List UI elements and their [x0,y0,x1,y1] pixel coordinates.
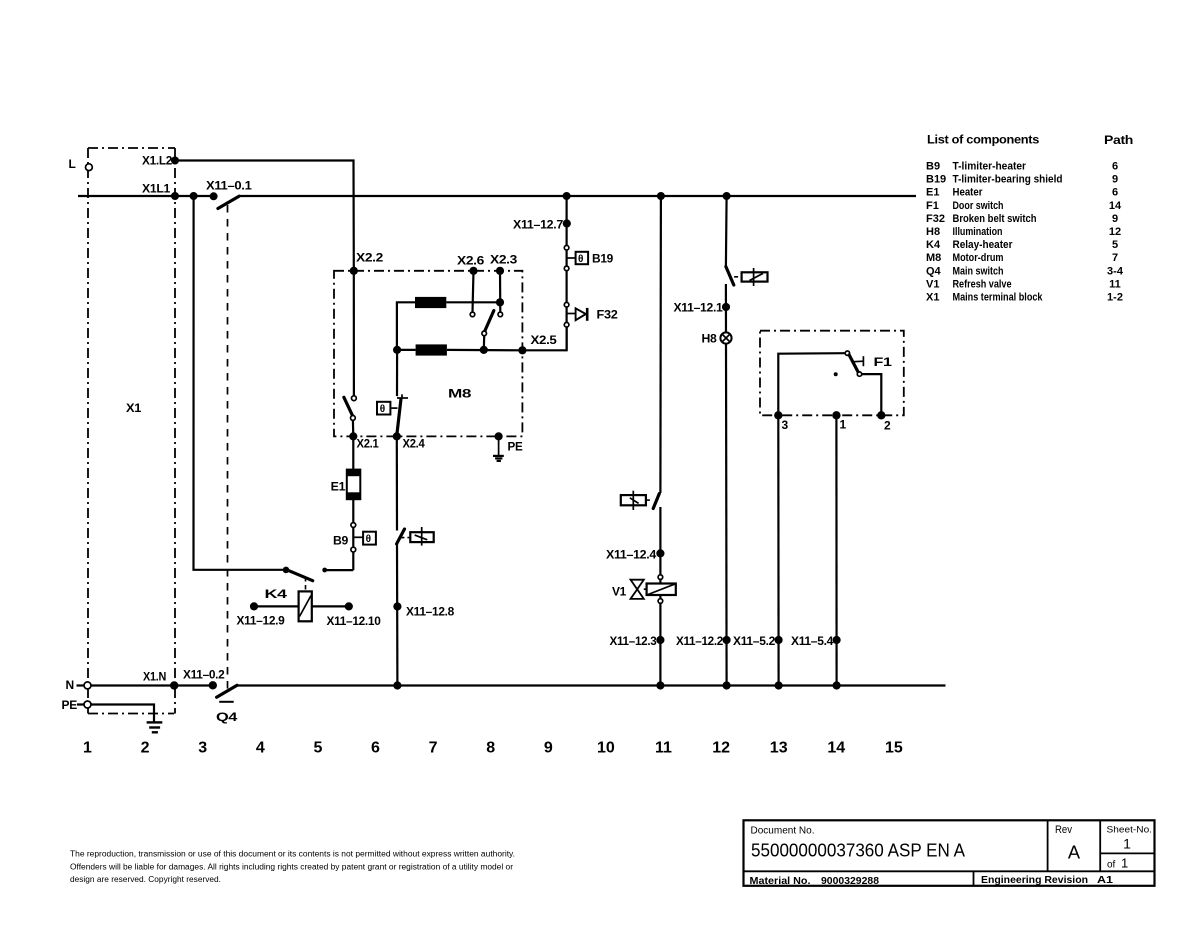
disclaimer text [70,850,515,885]
svg-text:X11–12.8: X11–12.8 [406,605,455,619]
wire L2 branch from X1.L2 to motor X2.2 [175,161,354,271]
switch Q4 pole X11-0.2 [209,681,238,697]
thermal sensor box (theta) of B9 [353,532,376,546]
program-operated contact in valve path [621,491,660,510]
mechanical link K4 contact to coil (dashed) [305,577,307,591]
wire contact to N bus [396,544,399,686]
svg-text:X11–12.1: X11–12.1 [674,301,724,315]
svg-text:Rev: Rev [1055,824,1072,836]
svg-text:B19: B19 [926,174,946,186]
node L (mains input terminal) [86,164,93,171]
wire PE from terminal to ground [77,705,154,722]
svg-text:6: 6 [371,740,380,757]
wire coil to X11-12.10 [312,605,349,607]
node X2.5 [518,346,526,354]
svg-text:Offenders will be liable for d: Offenders will be liable for damages. Al… [70,862,513,871]
svg-text:5: 5 [313,740,322,757]
node X2.6 [469,267,477,275]
mains terminal block X1 (dash-dot box) [88,148,175,714]
svg-text:Door switch: Door switch [953,200,1004,212]
svg-text:X1.L2: X1.L2 [142,154,173,168]
svg-text:X2.4: X2.4 [403,437,426,451]
svg-text:1: 1 [840,418,847,432]
svg-text:Q4: Q4 [216,710,238,724]
mechanical link Q4 (dashed) [227,205,229,691]
node junction L1 / path11 column [657,192,665,200]
wire illumination column (path 12) [725,196,728,266]
svg-text:X1L1: X1L1 [142,182,171,196]
svg-text:3: 3 [782,418,789,432]
svg-text:T-limiter-heater: T-limiter-heater [953,161,1027,173]
wire F1 terminal 3 to pivot [778,353,845,415]
svg-text:11: 11 [655,740,672,757]
broken belt switch F32 (diode-like symbol) [564,302,587,327]
svg-text:F1: F1 [874,355,893,369]
svg-text:θ: θ [366,534,371,545]
node X11-12.10 [345,602,353,610]
svg-text:X2.3: X2.3 [490,253,518,267]
node F1 terminal 3 [774,411,782,419]
label Q4 with overbar [216,702,238,724]
wire belt-switch column from L1 bus [565,196,567,350]
svg-text:11: 11 [1109,278,1121,290]
ground symbol PE [147,722,163,732]
svg-text:X11–5.4: X11–5.4 [791,634,834,648]
svg-text:2: 2 [884,419,891,433]
wire contact to X2.1 [352,420,355,436]
svg-text:K4: K4 [265,587,288,601]
svg-text:10: 10 [597,740,615,757]
motor winding 1 (upper) [397,297,500,350]
svg-text:B9: B9 [333,534,349,548]
svg-text:7: 7 [429,740,438,757]
svg-text:Mains terminal block: Mains terminal block [953,292,1044,304]
wire X11-12.9 to coil [254,605,299,607]
svg-text:X11–12.10: X11–12.10 [327,614,382,628]
wire X2.5 to belt-switch column [522,327,566,350]
wire terminal 1 to N bus [835,415,837,685]
svg-text:Heater: Heater [953,187,984,199]
node N terminal [84,682,91,689]
svg-text:12: 12 [1109,226,1121,238]
svg-text:X11–12.7: X11–12.7 [513,218,564,232]
node PE of M8 [495,432,503,440]
wire from L1 junction down to relay contact K4 [194,196,287,570]
svg-text:Broken belt switch: Broken belt switch [953,213,1037,225]
svg-text:design are reserved. Copyright: design are reserved. Copyright reserved. [70,875,221,884]
svg-text:F32: F32 [597,308,619,322]
wire X2.6 stub [473,271,474,312]
door switch F1 (dash-dot box) [760,331,904,416]
svg-text:Material No.: Material No. [750,875,811,887]
svg-text:F32: F32 [926,213,945,225]
node junction L1/belt column [563,192,571,200]
svg-text:9: 9 [1112,213,1118,225]
svg-text:M8: M8 [448,387,472,401]
svg-text:Path: Path [1104,133,1133,147]
svg-text:1: 1 [1121,856,1128,871]
svg-text:X11–5.2: X11–5.2 [733,634,776,648]
relay contact K4 (normally open) [283,567,327,581]
node X1.L2 [171,157,179,165]
svg-text:Q4: Q4 [926,265,942,277]
svg-text:E1: E1 [926,187,939,199]
title block texts [750,824,1153,887]
node junction N bus / path11 [656,681,664,689]
wire X2.2 down to motor contact [353,271,355,397]
svg-text:H8: H8 [702,332,718,346]
wire L1 bus (top horizontal) [78,195,916,197]
node X2.1 [349,432,357,440]
wire refresh-valve column (path 11) [659,196,662,493]
svg-text:1: 1 [1123,836,1131,852]
svg-text:of: of [1107,860,1116,871]
node X11-5.2 [775,636,783,644]
wire X2.3 down [499,271,501,312]
wire F1 contact to terminal 2 [862,374,882,415]
svg-text:B19: B19 [592,252,614,266]
node X11-12.2 [723,636,731,644]
wire terminal 3 to N bus [777,415,779,685]
svg-text:5: 5 [1112,239,1118,251]
node junction X2.3 column / winding 1 [496,298,504,306]
svg-text:PE: PE [62,698,78,712]
svg-text:M8: M8 [926,252,941,264]
svg-text:X11–0.2: X11–0.2 [183,668,225,682]
svg-text:1-2: 1-2 [1107,292,1123,304]
svg-text:List of components: List of components [927,133,1040,147]
svg-text:6: 6 [1112,161,1118,173]
wire X2.4 column below M8 [396,436,398,530]
svg-text:X11–12.3: X11–12.3 [610,634,658,648]
svg-text:X2.2: X2.2 [356,251,384,265]
node junction L1 / path12 column [723,192,731,200]
svg-text:A1: A1 [1097,874,1113,886]
relay coil K4 [299,591,312,621]
wire X2.4 column inside M8 [396,350,398,396]
svg-text:15: 15 [885,740,903,757]
contact X2.6 end circle [470,312,475,317]
svg-text:55000000037360 ASP EN A: 55000000037360 ASP EN A [751,840,966,861]
component list rows [926,161,1124,304]
svg-text:X11–0.1: X11–0.1 [206,179,252,193]
wire E1 to B9 [352,499,354,570]
svg-text:X2.1: X2.1 [357,437,380,451]
motor-drum M8 (dash-dot box) [334,271,522,437]
svg-text:X11–12.4: X11–12.4 [606,548,657,562]
svg-text:H8: H8 [926,226,940,238]
svg-text:9: 9 [1112,174,1118,186]
node X11-5.4 [833,636,841,644]
svg-text:12: 12 [712,740,730,757]
svg-text:6: 6 [1112,187,1118,199]
svg-text:F1: F1 [926,200,939,212]
svg-text:Refresh valve: Refresh valve [953,278,1012,290]
svg-text:T-limiter-bearing shield: T-limiter-bearing shield [953,174,1063,186]
node junction N bus / path14 [833,681,841,689]
wire from K4 contact to B9 column [327,569,353,571]
T-limiter-bearing-shield B19 contact [564,245,569,270]
svg-text:13: 13 [770,740,788,757]
svg-text:Main switch: Main switch [953,265,1004,277]
svg-text:PE: PE [508,440,523,454]
motor winding 2 (lower) [397,344,523,355]
thermal sensor box (theta) in M8 [377,402,398,415]
svg-text:X1.N: X1.N [143,670,166,684]
node X11-12.9 [250,602,258,610]
svg-text:X1: X1 [926,292,939,304]
svg-text:X11–12.2: X11–12.2 [676,634,724,648]
svg-text:Motor-drum: Motor-drum [953,252,1004,264]
svg-text:θ: θ [380,404,385,415]
node X2.2 [350,267,358,275]
node X11-12.8 [393,602,401,610]
node X1L1 [171,192,179,200]
svg-text:1: 1 [83,740,92,757]
node junction N bus / path12 [723,681,731,689]
svg-text:V1: V1 [612,585,627,599]
svg-text:14: 14 [827,740,845,757]
svg-text:Engineering Revision: Engineering Revision [981,874,1088,886]
node F1 terminal 2 [877,411,885,419]
svg-text:7: 7 [1112,252,1118,264]
svg-text:Document No.: Document No. [751,825,815,837]
centrifugal switch in M8 [482,311,494,350]
svg-text:8: 8 [486,740,495,757]
wire N bus (bottom horizontal) [77,684,946,686]
svg-text:2: 2 [141,740,150,757]
T-limiter-heater B9 contact [351,523,356,552]
switch Q4 pole X11-0.1 [210,192,239,208]
node X2.3 [496,267,504,275]
svg-text:9000329288: 9000329288 [821,875,879,887]
ground symbol under M8 [493,436,504,461]
svg-text:X11–12.9: X11–12.9 [237,614,286,628]
node X11-12.3 [656,636,664,644]
svg-text:Sheet-No.: Sheet-No. [1107,824,1153,835]
node F1 terminal 1 [832,411,840,419]
svg-text:K4: K4 [926,239,941,251]
svg-text:X2.6: X2.6 [457,254,485,268]
svg-text:B9: B9 [926,161,940,173]
path number scale [83,740,903,757]
wire contact down through lamp to N bus [725,284,728,686]
illumination lamp H8 [720,332,731,343]
node junction N bus / X2.4 column [393,681,401,689]
svg-text:V1: V1 [926,278,939,290]
program-operated contact in heater path [397,527,434,546]
node junction winding2 / X2.4 column [393,346,401,354]
svg-text:E1: E1 [331,480,346,494]
thermal contact of M8 with sensor [397,394,408,433]
svg-text:14: 14 [1109,200,1122,212]
title block frame [744,820,1155,886]
svg-text:θ: θ [578,254,583,265]
svg-text:L: L [69,157,76,171]
svg-text:N: N [66,678,74,692]
node X11-12.1 [722,303,730,311]
contact in M8 between X2.2 and X2.1 [344,396,356,420]
thermal sensor box (theta) of B19 [567,252,589,265]
node junction N bus / path13 [775,681,783,689]
heater E1 [347,436,361,499]
svg-text:Illumination: Illumination [953,226,1003,238]
svg-text:4: 4 [256,740,265,757]
node junction on L1 bus feeding K4 branch [190,192,198,200]
refresh valve V1 [631,575,676,604]
svg-text:3-4: 3-4 [1107,265,1124,277]
node X11-12.4 [656,549,664,557]
svg-text:X2.5: X2.5 [531,333,558,347]
node PE terminal [84,701,91,708]
wire contact to N bus via V1 [659,507,661,686]
svg-text:A: A [1068,842,1081,863]
svg-text:9: 9 [544,740,553,757]
node X11-12.7 [563,219,571,227]
contact X2.3 end circle [498,312,503,317]
node X2.4 [393,432,401,440]
svg-text:3: 3 [198,740,207,757]
node junction winding2 / centrifugal switch [480,346,488,354]
pivot dot inside F1 [834,372,838,376]
svg-text:The reproduction, transmission: The reproduction, transmission or use of… [70,850,515,859]
door switch F1 contact [845,351,863,376]
program-operated contact in lamp path [726,267,768,286]
node X1.N [170,681,178,689]
svg-text:Relay-heater: Relay-heater [953,239,1014,251]
svg-text:X1: X1 [126,401,142,415]
